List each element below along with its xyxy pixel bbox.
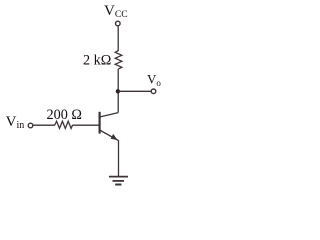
wire Vin to R2	[33, 124, 55, 126]
transistor Q1 base bar	[98, 112, 100, 134]
svg-text:VCC: VCC	[104, 3, 128, 20]
svg-text:Vo: Vo	[147, 72, 161, 88]
resistor R1 2kohm	[115, 51, 122, 69]
terminal Vin	[28, 123, 33, 128]
resistor R2 200ohm	[55, 121, 73, 128]
ground bar 3	[115, 184, 121, 186]
ground bar 1	[109, 176, 128, 178]
svg-text:2 kΩ: 2 kΩ	[83, 52, 111, 68]
svg-text:200 Ω: 200 Ω	[47, 107, 82, 123]
wire R2 to base	[73, 124, 99, 126]
transistor Q1 collector lead	[100, 113, 119, 117]
terminal Vo	[151, 89, 156, 94]
transistor Q1 emitter lead	[100, 130, 119, 141]
wire Vcc to R1	[117, 26, 119, 51]
svg-text:Vin: Vin	[6, 114, 25, 131]
node junction dot	[116, 89, 120, 93]
terminal Vcc	[116, 21, 121, 26]
wire R1 to collector node	[117, 69, 119, 113]
transistor Q1 emitter arrowhead	[111, 134, 118, 140]
wire node to Vo terminal	[118, 90, 151, 92]
wire emitter to ground	[118, 140, 120, 176]
ground bar 2	[113, 180, 125, 182]
